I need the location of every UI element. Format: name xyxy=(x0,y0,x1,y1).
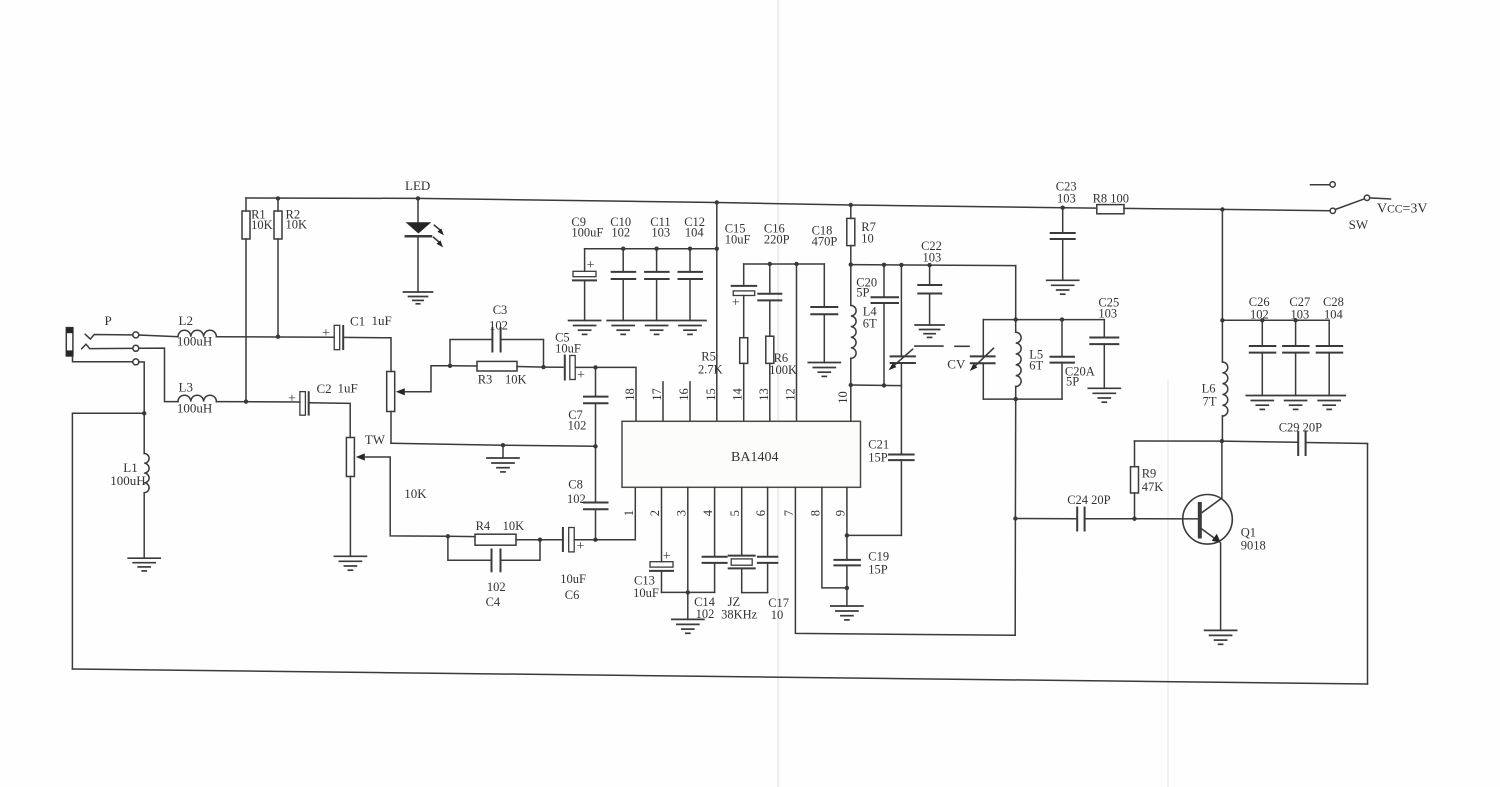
wire C29 to right drop xyxy=(1306,443,1368,444)
node pin9/C21 junction xyxy=(845,533,849,537)
node R2 top on rail xyxy=(276,196,280,200)
node C27 on bus xyxy=(1293,318,1297,322)
ground under C22 xyxy=(915,325,944,337)
node R4 left junction xyxy=(446,534,450,538)
node C10 on bus xyxy=(621,247,625,251)
wire bus to IC pin 12 xyxy=(796,264,798,421)
svg-text:TW: TW xyxy=(365,432,386,447)
svg-text:102: 102 xyxy=(567,492,586,506)
svg-text:100uH: 100uH xyxy=(177,401,212,416)
node C20 top on bus xyxy=(882,263,886,267)
ground under C23 xyxy=(1047,280,1079,294)
ground under C13/C14 xyxy=(672,619,704,633)
svg-text:8: 8 xyxy=(808,510,822,516)
capacitor C19 xyxy=(834,560,860,606)
inductor L1 xyxy=(144,454,149,493)
svg-text:3: 3 xyxy=(674,510,688,516)
resistor R8 xyxy=(1097,205,1124,214)
wire C24 to base xyxy=(1015,518,1197,520)
svg-text:C3: C3 xyxy=(493,303,508,317)
wire R9 top run xyxy=(1135,440,1222,442)
svg-text:C8: C8 xyxy=(568,478,583,492)
capacitor C26 xyxy=(1250,320,1276,395)
svg-text:1uF: 1uF xyxy=(338,381,358,396)
svg-text:10K: 10K xyxy=(251,218,273,232)
wire C21 to pin 9 xyxy=(847,534,902,536)
crystal JZ 38KHz xyxy=(729,487,755,592)
node C19/pin8 junction xyxy=(845,586,849,590)
wire pin 7 run xyxy=(795,487,1015,635)
wire JZ to C17 bottom xyxy=(742,592,768,594)
capacitor C29 plates xyxy=(1298,432,1305,455)
svg-text:+: + xyxy=(732,296,740,311)
wire bottom return bus xyxy=(72,669,1367,684)
node trimmer top on bus xyxy=(899,263,903,267)
wire tip to L2 xyxy=(139,335,178,337)
ground under TW xyxy=(334,556,366,570)
capacitor C2 (electrolytic) xyxy=(300,392,309,416)
svg-text:5P: 5P xyxy=(856,286,869,300)
wire pot1 bottom to C7 node xyxy=(391,443,596,446)
svg-text:+: + xyxy=(322,326,330,341)
node collector junction xyxy=(1220,439,1224,443)
wire tank bottom down to C24/pin7 xyxy=(1014,399,1017,635)
wire C2 to TW pot xyxy=(309,403,351,438)
capacitor C1 (electrolytic) xyxy=(334,325,343,349)
svg-text:10: 10 xyxy=(861,232,874,246)
svg-text:470P: 470P xyxy=(812,235,838,249)
svg-text:10K: 10K xyxy=(404,486,427,501)
svg-text:10: 10 xyxy=(771,608,784,622)
wire C1 to volume pot xyxy=(343,337,391,371)
svg-text:R8 100: R8 100 xyxy=(1093,192,1129,206)
capacitor C24 plates xyxy=(1077,508,1084,531)
wire left return loop xyxy=(72,413,144,669)
node tank bottom junction xyxy=(1014,397,1018,401)
svg-text:9: 9 xyxy=(833,510,847,516)
svg-text:Q1: Q1 xyxy=(1241,526,1256,540)
wire right return drop xyxy=(1367,444,1369,685)
capacitor C20 xyxy=(872,265,899,386)
capacitor C3 plates xyxy=(492,328,500,352)
svg-text:VCC=3V: VCC=3V xyxy=(1377,202,1427,217)
node R3/C3 left junction xyxy=(448,364,452,368)
switch SW xyxy=(1311,182,1391,214)
node L4 bottom junction xyxy=(849,383,853,387)
capacitor C5 (electrolytic) xyxy=(565,356,575,380)
IC pin 16 stub xyxy=(689,382,691,421)
LED xyxy=(406,196,444,292)
node R1/L3 junction xyxy=(244,399,248,403)
node R9/base junction xyxy=(1132,517,1136,521)
node C20 bottom junction xyxy=(882,383,886,387)
svg-text:15P: 15P xyxy=(868,451,888,465)
node pin15 on rail xyxy=(715,200,719,204)
svg-text:6T: 6T xyxy=(863,317,877,331)
svg-text:103: 103 xyxy=(1057,192,1076,206)
node R2/L2 junction xyxy=(276,335,280,339)
potentiometer (volume, upper) xyxy=(387,366,450,444)
svg-text:C19: C19 xyxy=(868,550,889,564)
capacitor C11 xyxy=(645,249,669,321)
svg-text:L6: L6 xyxy=(1202,382,1216,396)
wire jack ring contact xyxy=(82,344,133,349)
node C9 bus corner xyxy=(715,247,719,251)
svg-text:L2: L2 xyxy=(179,313,193,328)
capacitor C21 xyxy=(889,386,914,536)
wire IC pin 3 xyxy=(687,487,689,592)
svg-text:4: 4 xyxy=(701,509,715,516)
capacitor C27 xyxy=(1283,320,1309,395)
wire L4/C20/C22 bus xyxy=(851,265,1016,266)
node C24 junction xyxy=(1013,516,1017,520)
node C7/C8 junction xyxy=(593,444,597,448)
svg-text:1uF: 1uF xyxy=(372,313,392,328)
resistor R5 xyxy=(740,338,748,422)
svg-text:102: 102 xyxy=(1250,308,1269,322)
wire jack sleeve contact xyxy=(73,356,133,362)
resistor R7 xyxy=(847,205,855,305)
capacitor C4 plates xyxy=(492,550,501,572)
wire L3 to C2 xyxy=(216,401,300,403)
svg-text:SW: SW xyxy=(1349,217,1369,232)
capacitor C15 (electrolytic) xyxy=(732,264,757,338)
ground under LED xyxy=(404,292,433,304)
svg-text:+: + xyxy=(577,368,585,383)
svg-text:16: 16 xyxy=(677,388,691,401)
svg-text:+: + xyxy=(577,539,585,554)
wire sleeve to L1 and left loop xyxy=(139,362,144,454)
svg-text:10uF: 10uF xyxy=(560,572,586,586)
svg-text:102: 102 xyxy=(696,607,715,621)
wire Vcc top rail (R8 to switch) xyxy=(1124,208,1330,210)
node C11 on bus xyxy=(654,247,658,251)
ground under C26 xyxy=(1246,396,1278,410)
svg-text:13: 13 xyxy=(757,388,771,401)
node C4 right junction xyxy=(538,538,542,542)
svg-text:+: + xyxy=(587,258,595,273)
resistor R1 xyxy=(242,198,250,402)
resistor R3 xyxy=(450,361,544,371)
svg-text:R4: R4 xyxy=(476,519,491,533)
ground under C9 xyxy=(569,321,601,335)
ground under C27 xyxy=(1280,396,1312,410)
svg-text:LED: LED xyxy=(405,178,430,193)
svg-text:5: 5 xyxy=(728,510,742,516)
capacitor C10 xyxy=(612,249,636,321)
svg-text:6T: 6T xyxy=(1029,359,1043,373)
svg-text:10K: 10K xyxy=(286,218,308,232)
svg-text:9018: 9018 xyxy=(1241,539,1266,553)
capacitor C12 xyxy=(679,249,703,321)
wire rail down to C26 bus xyxy=(1221,209,1223,320)
ground under L1 xyxy=(128,558,160,571)
node pin12 on bus xyxy=(794,262,798,266)
capacitor C9 (electrolytic) xyxy=(573,249,596,321)
svg-text:R5: R5 xyxy=(701,350,716,364)
node C5/C7/pin18 junction xyxy=(593,365,597,369)
svg-text:C1: C1 xyxy=(350,314,365,329)
wire L1 to ground xyxy=(143,493,145,559)
svg-text:5P: 5P xyxy=(1066,375,1079,389)
svg-text:10: 10 xyxy=(836,391,850,404)
svg-text:103: 103 xyxy=(1098,307,1117,321)
svg-text:100uH: 100uH xyxy=(110,473,145,488)
svg-text:R3: R3 xyxy=(478,373,493,387)
svg-text:L3: L3 xyxy=(179,380,193,395)
wire to IC pin 1 xyxy=(596,487,636,539)
node C23 on rail xyxy=(1061,206,1065,210)
svg-text:103: 103 xyxy=(651,226,670,240)
svg-text:100K: 100K xyxy=(769,363,797,377)
resistor R9 xyxy=(1131,441,1139,519)
capacitor C3 branch wires xyxy=(450,340,544,368)
svg-text:2: 2 xyxy=(648,510,662,516)
wire rail to IC pin 15 xyxy=(716,203,718,422)
svg-text:10uF: 10uF xyxy=(555,342,581,356)
wire to IC pin 18 xyxy=(596,367,637,421)
inductor L3 xyxy=(178,395,216,401)
wire C26-C28 bus xyxy=(1222,319,1329,321)
svg-text:102: 102 xyxy=(489,319,508,333)
svg-text:7: 7 xyxy=(782,510,796,516)
capacitor C23 xyxy=(1051,208,1075,281)
wire tank top rail xyxy=(983,319,1104,321)
svg-text:C29 20P: C29 20P xyxy=(1279,421,1322,435)
svg-text:1: 1 xyxy=(622,510,636,516)
svg-text:104: 104 xyxy=(685,226,705,240)
capacitor C17 xyxy=(758,487,777,592)
svg-text:C2: C2 xyxy=(317,381,332,396)
node ring contact circle xyxy=(133,345,139,351)
svg-text:103: 103 xyxy=(923,251,942,265)
node C20A top junction xyxy=(1060,317,1064,321)
ground under C18 xyxy=(808,363,840,377)
wire L4 to pin10 node xyxy=(850,358,852,385)
node C22 top on bus xyxy=(927,263,931,267)
capacitor C16 xyxy=(758,264,781,336)
svg-text:15P: 15P xyxy=(868,563,888,577)
svg-text:C24 20P: C24 20P xyxy=(1067,493,1110,507)
node L6 drop on rail xyxy=(1220,207,1224,211)
svg-text:18: 18 xyxy=(623,388,637,401)
svg-text:10uF: 10uF xyxy=(725,233,751,247)
inductor L6 xyxy=(1222,320,1227,441)
svg-text:102: 102 xyxy=(487,580,506,594)
ground under C11 xyxy=(641,321,673,335)
svg-text:17: 17 xyxy=(650,388,664,401)
node mid ground junction xyxy=(501,443,505,447)
wire C9-C12 bus xyxy=(585,248,717,250)
wire IC pin 9 xyxy=(846,487,848,560)
wire C13/pin3/C14 bottom bar xyxy=(662,591,715,593)
transistor Q1 9018 xyxy=(1183,441,1233,630)
capacitor C28 xyxy=(1317,320,1343,395)
wire to IC pin 10 xyxy=(850,385,852,421)
node R7 top on rail xyxy=(849,203,853,207)
resistor R6 xyxy=(766,336,774,421)
node C12 on bus xyxy=(688,247,692,251)
node R7/L4 bus junction xyxy=(849,262,853,266)
svg-text:38KHz: 38KHz xyxy=(721,608,758,622)
svg-text:C21: C21 xyxy=(868,438,889,452)
wire C6 to pin1 node xyxy=(574,539,595,541)
wire Vcc top rail (left of R8) xyxy=(246,198,1097,208)
capacitor C4 branch wires xyxy=(448,536,540,560)
svg-text:47K: 47K xyxy=(1142,480,1164,494)
wire tank bottom rail xyxy=(983,398,1062,400)
wire C15/C16/C18 bus xyxy=(744,263,825,265)
node C26 bus junction xyxy=(1220,318,1224,322)
resistor R2 xyxy=(274,198,282,336)
svg-text:6: 6 xyxy=(754,510,768,516)
wire L2 to C1 xyxy=(216,336,334,339)
wire IC pin 8 xyxy=(822,487,847,588)
svg-text:+: + xyxy=(288,392,296,407)
scan crease right xyxy=(1167,380,1169,787)
svg-text:CV: CV xyxy=(947,357,966,372)
svg-text:220P: 220P xyxy=(764,233,790,247)
variable capacitor CV xyxy=(955,320,995,400)
capacitor C13 (electrolytic) xyxy=(650,487,673,592)
capacitor C22 xyxy=(918,265,941,325)
svg-text:C4: C4 xyxy=(486,595,501,609)
svg-text:+: + xyxy=(663,549,671,564)
potentiometer TW xyxy=(346,438,448,557)
svg-text:C6: C6 xyxy=(565,588,580,602)
svg-text:100uF: 100uF xyxy=(571,226,603,240)
svg-text:14: 14 xyxy=(731,387,745,400)
ground mid (between R3 and R4) xyxy=(487,458,519,472)
svg-text:104: 104 xyxy=(1324,308,1344,322)
inductor L5 xyxy=(1016,320,1021,400)
ground under Q1 emitter xyxy=(1205,630,1237,644)
ground under C25 xyxy=(1088,388,1120,402)
wire stub to mid ground xyxy=(502,445,504,458)
svg-text:102: 102 xyxy=(568,419,587,433)
capacitor C7 xyxy=(584,367,608,446)
svg-text:7T: 7T xyxy=(1203,395,1217,409)
wire jack tip contact xyxy=(85,334,133,339)
svg-text:102: 102 xyxy=(611,226,630,240)
IC pin 17 stub xyxy=(662,382,664,421)
node sleeve/loop junction xyxy=(142,411,146,415)
inductor L2 xyxy=(178,330,216,336)
capacitor C20A xyxy=(1051,320,1075,400)
svg-text:R9: R9 xyxy=(1142,467,1157,481)
svg-text:BA1404: BA1404 xyxy=(731,450,778,465)
node C16 on bus xyxy=(768,262,772,266)
wire to C5 xyxy=(544,366,563,368)
node R3/C3 right junction xyxy=(541,365,545,369)
resistor R4 xyxy=(448,534,562,545)
svg-text:2.7K: 2.7K xyxy=(698,363,723,377)
ground under C10 xyxy=(607,321,639,335)
ground under C12 xyxy=(674,321,706,335)
ground under C28 xyxy=(1313,396,1345,410)
inductor L4 xyxy=(851,305,856,358)
svg-text:P: P xyxy=(105,313,112,328)
wire stub to ground below pin3 xyxy=(687,592,689,619)
node C8/C6/pin1 junction xyxy=(593,538,597,542)
capacitor C25 xyxy=(1090,320,1118,389)
ground under C19 xyxy=(831,606,863,620)
scan crease left xyxy=(777,0,779,787)
wire L4 bottom junction bar xyxy=(851,384,902,387)
wire collector junction to C29 xyxy=(1222,441,1298,442)
node pin3 bottom junction xyxy=(686,590,690,594)
wire C5 to pin18 node xyxy=(575,366,595,368)
svg-text:10uF: 10uF xyxy=(633,586,659,600)
capacitor C14 xyxy=(703,487,727,592)
node sleeve contact circle xyxy=(133,359,139,365)
svg-text:10K: 10K xyxy=(505,373,527,387)
node tip contact circle xyxy=(133,332,139,338)
svg-text:10K: 10K xyxy=(503,519,525,533)
svg-text:103: 103 xyxy=(1291,308,1310,322)
capacitor C8 xyxy=(584,446,608,539)
capacitor C6 (electrolytic) xyxy=(563,528,574,552)
svg-text:100uH: 100uH xyxy=(177,334,212,349)
op-amp U1 BA1404 IC body xyxy=(622,421,861,487)
wire bus corner down to tank top xyxy=(1015,266,1017,320)
wire ring to L3 xyxy=(139,348,178,402)
node tank top junction xyxy=(1014,317,1018,321)
capacitor C18 xyxy=(811,264,837,363)
trimmer capacitor (CV gang) xyxy=(889,265,943,386)
connector P (phone jack body) xyxy=(66,328,73,356)
svg-text:12: 12 xyxy=(784,388,798,401)
svg-text:15: 15 xyxy=(704,388,718,401)
node C26 on bus xyxy=(1260,318,1264,322)
